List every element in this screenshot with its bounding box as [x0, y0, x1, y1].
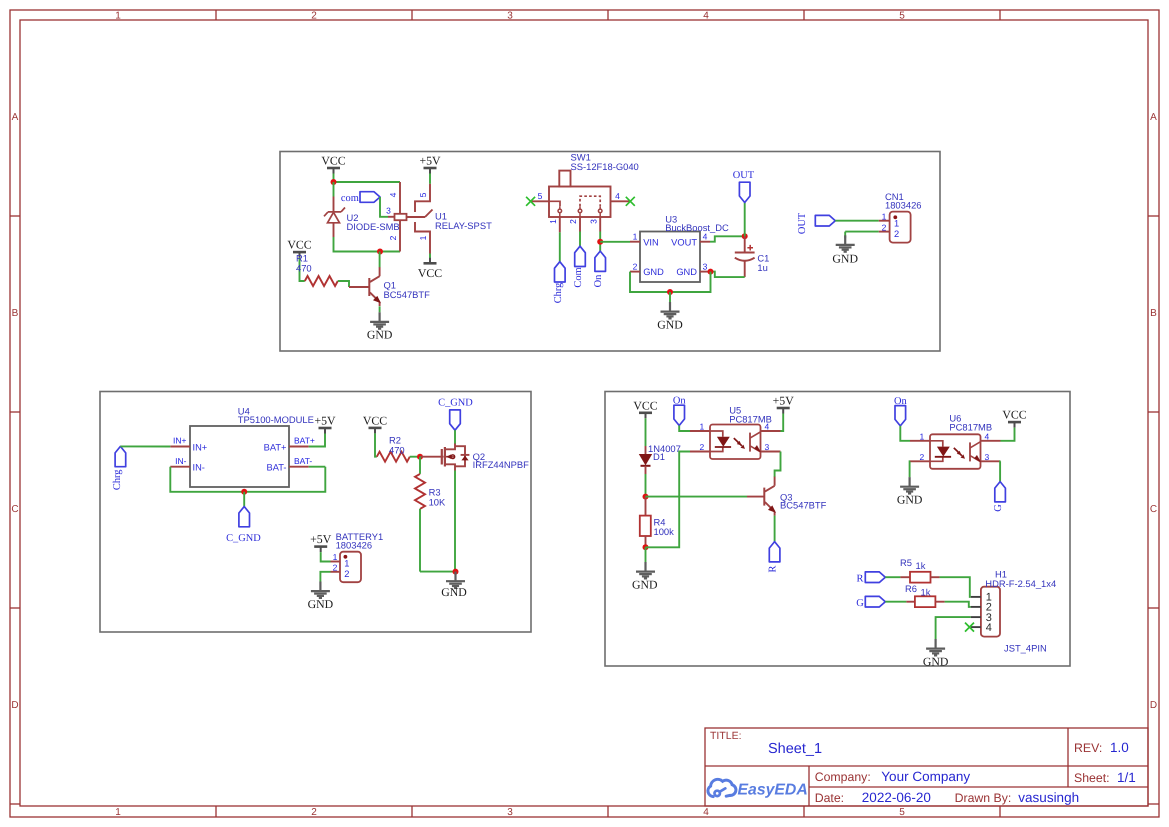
ground (H1 pin 3): [923, 639, 949, 668]
svg-text:Sheet:: Sheet:: [1074, 771, 1110, 785]
svg-text:4: 4: [765, 422, 770, 432]
wire: [410, 456, 420, 458]
svg-text:TITLE:: TITLE:: [710, 730, 742, 742]
net flag On (SW1): [593, 251, 605, 287]
relay U1 coil pin 3: [386, 206, 394, 217]
resistor R5 1k: [900, 557, 940, 582]
svg-text:Your Company: Your Company: [881, 769, 970, 784]
svg-text:R: R: [767, 565, 778, 572]
junction: [708, 269, 714, 275]
wire: [835, 220, 879, 222]
frame column numbers top: [115, 11, 905, 819]
wire: [559, 232, 561, 261]
wire: [420, 571, 456, 573]
mosfet Q2 IRFZ44NPBF: [442, 443, 529, 471]
connector CN1 1803426: [885, 191, 922, 243]
svg-text:1.0: 1.0: [1110, 740, 1129, 755]
svg-text:2: 2: [333, 563, 338, 573]
net flag On (U6): [894, 396, 908, 426]
title block: [705, 728, 1148, 806]
diode U2 (zener DIODE-SMB): [324, 197, 400, 238]
ic U3 pin 2: [630, 262, 640, 272]
svg-text:On: On: [593, 274, 604, 288]
ground (U3): [657, 302, 683, 331]
svg-text:G: G: [856, 598, 864, 609]
svg-text:VCC: VCC: [321, 154, 345, 168]
svg-text:Drawn By:: Drawn By:: [955, 791, 1012, 805]
power flag VCC (U6 pin 4): [1002, 408, 1026, 428]
transistor Q3 BC547BTF: [747, 477, 827, 516]
svg-text:4: 4: [388, 192, 398, 197]
svg-text:1: 1: [882, 211, 887, 221]
resistor R2 470: [377, 434, 410, 461]
svg-text:A: A: [12, 112, 19, 123]
svg-text:R: R: [857, 573, 864, 584]
EasyEDA logo: [708, 779, 808, 798]
net flag C_GND (below U4): [226, 507, 261, 545]
resistor R1 470: [296, 253, 338, 287]
svg-text:Chrg: Chrg: [553, 283, 564, 304]
wire: [429, 174, 431, 184]
svg-text:JST_4PIN: JST_4PIN: [1004, 643, 1047, 654]
svg-text:3: 3: [588, 219, 598, 224]
transistor Q1 BC547BTF: [349, 267, 430, 306]
svg-text:D: D: [1150, 700, 1157, 711]
svg-text:BAT+: BAT+: [294, 436, 315, 446]
power flag VCC (relay pin 1): [418, 258, 442, 280]
junction: [643, 494, 649, 500]
wire: [781, 414, 784, 432]
svg-text:5: 5: [538, 191, 543, 201]
wire: [645, 547, 647, 562]
wire: [379, 306, 381, 312]
power flag +5V (BAT+): [314, 414, 336, 434]
svg-text:3: 3: [765, 442, 770, 452]
net flag G (U6 pin 3): [993, 482, 1005, 512]
module U4 pin BAT+: [289, 436, 315, 447]
no-connect (H1 pin 4): [965, 623, 974, 632]
svg-text:2: 2: [388, 235, 398, 240]
svg-text:R6: R6: [905, 583, 917, 594]
frame row letters: [11, 112, 1157, 711]
svg-text:1: 1: [700, 422, 705, 432]
net flag On (U5): [673, 396, 687, 426]
net flag OUT (above C1): [733, 170, 755, 203]
wire: [599, 232, 601, 252]
svg-text:On: On: [894, 396, 908, 407]
wire: [300, 258, 305, 281]
relay U1 coil pin 2: [388, 220, 400, 251]
ground (battery pin 2): [308, 582, 334, 611]
net flag OUT (to CN1): [797, 212, 836, 234]
svg-text:5: 5: [899, 11, 905, 22]
svg-text:Company:: Company:: [815, 770, 871, 784]
optocoupler U5 pin 2: [690, 442, 710, 452]
svg-text:2: 2: [920, 452, 925, 462]
svg-text:VCC: VCC: [287, 238, 311, 252]
mosfet Q2 IRFZ44NPBF gate pin: [420, 456, 444, 458]
net flag R (Q3 emitter): [767, 542, 779, 573]
junction: [643, 544, 649, 550]
svg-text:+5V: +5V: [310, 532, 332, 546]
svg-text:+5V: +5V: [314, 414, 336, 428]
svg-text:1/1: 1/1: [1117, 770, 1136, 785]
wire: [630, 272, 711, 292]
wire: [321, 552, 331, 561]
wire: [909, 461, 911, 477]
wire: [646, 496, 748, 498]
ground (U6 pin 2): [897, 477, 923, 506]
power flag VCC (D1): [633, 398, 657, 418]
svg-text:2: 2: [700, 442, 705, 452]
wire: [711, 272, 745, 278]
ic U3 pin 1: [630, 232, 640, 242]
svg-text:Date:: Date:: [815, 791, 844, 805]
resistor R6 1k: [905, 583, 945, 607]
svg-text:1803426: 1803426: [336, 540, 373, 551]
wire: [338, 281, 349, 287]
junction: [667, 289, 673, 295]
ic U3 pin 3: [700, 262, 711, 272]
wire: [454, 471, 456, 572]
svg-text:GND: GND: [632, 577, 658, 591]
wire: [170, 467, 325, 492]
module U4 pin BAT-: [289, 456, 312, 467]
optocoupler U6 pin 4: [981, 431, 1001, 441]
svg-text:470: 470: [296, 263, 312, 274]
svg-text:Sheet_1: Sheet_1: [768, 741, 822, 757]
svg-text:2: 2: [633, 262, 638, 272]
svg-text:2022-06-20: 2022-06-20: [862, 790, 931, 805]
svg-text:A: A: [1150, 112, 1157, 123]
wire: [320, 572, 330, 582]
wire: [885, 601, 906, 603]
optocoupler U5 PC817MB: [710, 405, 772, 459]
svg-text:GND: GND: [441, 585, 467, 599]
power flag +5V (U5 pin 4): [773, 394, 795, 414]
svg-text:3: 3: [703, 262, 708, 272]
wire: [375, 433, 377, 456]
relay U1 coil: [395, 214, 407, 220]
svg-text:1: 1: [344, 558, 349, 568]
module U4 TP5100-MODULE: [190, 405, 314, 487]
svg-text:1: 1: [633, 232, 638, 242]
svg-text:BuckBoost_DC: BuckBoost_DC: [665, 222, 729, 233]
wire: [380, 197, 388, 217]
svg-text:VCC: VCC: [418, 266, 442, 280]
battery BATTERY1 pin 2: [331, 563, 341, 573]
switch SW1 pin 5: [531, 191, 549, 202]
resistor R3 10K: [415, 457, 446, 572]
svg-text:1u: 1u: [757, 262, 767, 273]
svg-text:GND: GND: [657, 317, 683, 331]
power flag VCC (top of relay coil): [321, 154, 345, 174]
module U4 pin IN+: [170, 436, 190, 447]
net flag com: [341, 192, 380, 204]
svg-text:SS-12F18-G040: SS-12F18-G040: [571, 161, 639, 172]
svg-text:Chrg: Chrg: [112, 470, 123, 491]
ground (Q1 emitter): [367, 312, 393, 341]
svg-text:470: 470: [389, 444, 405, 455]
section box: charger section: [100, 392, 531, 633]
wire: [940, 577, 971, 597]
wire: [936, 617, 971, 639]
svg-text:2: 2: [568, 219, 578, 224]
svg-text:BC547BTF: BC547BTF: [384, 289, 431, 300]
battery BATTERY1 pin 1: [331, 552, 341, 562]
ground (CN1 pin 2): [832, 235, 858, 265]
svg-text:1: 1: [920, 431, 925, 441]
optocoupler U5 pin 1: [690, 422, 710, 432]
svg-text:IN+: IN+: [193, 442, 208, 452]
junction: [417, 454, 423, 460]
optocoupler U6 pin 2: [910, 452, 930, 462]
switch SW1 pin 1: [548, 217, 560, 232]
svg-text:GND: GND: [832, 252, 858, 266]
optocoupler U6 PC817MB: [930, 413, 992, 469]
svg-text:1: 1: [548, 219, 558, 224]
svg-text:C_GND: C_GND: [226, 533, 261, 544]
svg-text:GND: GND: [367, 328, 393, 342]
switch SW1 SS-12F18-G040: [549, 152, 639, 218]
svg-text:2: 2: [894, 229, 899, 239]
net flag G (to R6): [856, 596, 885, 608]
svg-text:2: 2: [311, 807, 317, 818]
svg-text:GND: GND: [923, 654, 949, 668]
wire: [885, 576, 900, 578]
svg-text:2: 2: [344, 569, 349, 579]
svg-text:D: D: [11, 700, 18, 711]
svg-text:4: 4: [703, 807, 709, 818]
svg-text:C: C: [1150, 504, 1157, 515]
svg-text:C: C: [11, 504, 18, 515]
header H1 HDR-F-2.54_1x4: [981, 569, 1056, 654]
capacitor C1 1u: [735, 236, 770, 277]
connector CN1 pin 2: [879, 222, 890, 232]
wire: [379, 252, 381, 268]
section box: led driver section: [605, 392, 1070, 667]
net flag Com (SW1): [573, 246, 585, 287]
net flag C_GND (Q2 drain): [438, 397, 473, 430]
module U4 pin IN-: [170, 456, 190, 467]
svg-text:Com: Com: [573, 267, 584, 287]
ground (Q2 source): [441, 572, 467, 599]
wire: [645, 418, 647, 446]
svg-text:TP5100-MODULE: TP5100-MODULE: [238, 414, 314, 425]
power flag VCC (R2): [363, 413, 387, 433]
wire: [243, 492, 245, 507]
svg-text:GND: GND: [676, 267, 697, 277]
svg-text:REV:: REV:: [1074, 741, 1102, 755]
wire: [945, 602, 971, 607]
switch SW1 pin 2: [568, 217, 580, 232]
no-connect (SW1 pin 4): [626, 197, 635, 206]
wire: [999, 461, 1001, 481]
svg-text:IN-: IN-: [175, 456, 187, 466]
wire: [775, 452, 781, 478]
svg-text:4: 4: [703, 232, 708, 242]
diode D1 1N4007: [639, 443, 681, 474]
svg-text:VOUT: VOUT: [671, 237, 697, 247]
wire: [679, 426, 690, 432]
ic U3 pin 4: [700, 232, 710, 242]
wire: [645, 474, 647, 497]
svg-text:1: 1: [894, 218, 899, 228]
svg-text:C_GND: C_GND: [438, 397, 473, 408]
svg-text:EasyEDA: EasyEDA: [738, 782, 808, 799]
section box: relay/power section: [280, 152, 940, 352]
wire: [334, 237, 401, 252]
svg-text:GND: GND: [643, 267, 664, 277]
svg-text:3: 3: [507, 11, 513, 22]
wire: [309, 466, 326, 468]
wire: [454, 430, 456, 443]
svg-text:2: 2: [882, 222, 887, 232]
svg-text:3: 3: [507, 807, 513, 818]
svg-text:On: On: [673, 396, 687, 407]
wire: [333, 182, 335, 197]
power flag +5V (battery): [310, 532, 332, 552]
power flag +5V (relay pin 5): [419, 154, 441, 174]
junction: [241, 489, 247, 495]
svg-text:BAT-: BAT-: [294, 456, 312, 466]
svg-text:B: B: [1150, 308, 1157, 319]
header H1 pin stubs: [971, 597, 981, 627]
wire: [744, 203, 746, 237]
svg-text:1k: 1k: [916, 560, 926, 571]
wire: [120, 445, 170, 447]
junction: [742, 233, 748, 239]
relay U1 coil pin 4: [388, 182, 400, 214]
svg-text:100k: 100k: [654, 526, 675, 537]
svg-text:BC547BTF: BC547BTF: [780, 499, 827, 510]
svg-text:BAT-: BAT-: [267, 463, 287, 473]
svg-text:GND: GND: [308, 597, 334, 611]
ic U3 BuckBoost_DC: [640, 214, 729, 282]
optocoupler U5 pin 3: [761, 442, 781, 452]
wire: [669, 292, 671, 302]
net flag R (to R5): [857, 572, 886, 584]
ground (R4): [632, 562, 658, 591]
svg-text:1k: 1k: [921, 587, 931, 598]
svg-text:4: 4: [985, 431, 990, 441]
svg-text:RELAY-SPST: RELAY-SPST: [435, 220, 492, 231]
no-connect (SW1 pin 5): [526, 197, 535, 206]
svg-text:DIODE-SMB: DIODE-SMB: [347, 221, 400, 232]
wire: [333, 174, 335, 183]
junction: [377, 249, 383, 255]
svg-text:com: com: [341, 193, 359, 204]
svg-text:R5: R5: [900, 557, 912, 568]
power flag VCC (R1): [287, 238, 311, 258]
svg-text:D1: D1: [653, 451, 665, 462]
wire: [309, 434, 325, 447]
svg-text:3: 3: [985, 452, 990, 462]
optocoupler U5 pin 4: [761, 422, 781, 432]
wire: [429, 254, 431, 259]
switch SW1 pin 4: [611, 191, 631, 202]
wire: [710, 236, 745, 241]
svg-text:1: 1: [115, 807, 121, 818]
svg-text:vasusingh: vasusingh: [1018, 790, 1079, 805]
wire: [579, 232, 581, 247]
net flag Chrg (SW1): [553, 262, 565, 304]
svg-text:1: 1: [115, 11, 121, 22]
svg-text:G: G: [993, 504, 1004, 512]
svg-text:+5V: +5V: [419, 154, 441, 168]
svg-text:OUT: OUT: [797, 212, 808, 234]
svg-text:4: 4: [986, 622, 992, 634]
battery BATTERY1 1803426: [336, 531, 384, 582]
svg-text:HDR-F-2.54_1x4: HDR-F-2.54_1x4: [985, 578, 1056, 589]
svg-text:VCC: VCC: [363, 413, 387, 427]
title block texts: [710, 730, 1136, 805]
svg-text:1803426: 1803426: [885, 200, 922, 211]
wire: [774, 516, 776, 542]
junction: [331, 179, 337, 185]
svg-text:+5V: +5V: [773, 394, 795, 408]
svg-text:4: 4: [615, 191, 620, 201]
net flag Chrg (U4 input): [112, 446, 126, 490]
switch SW1 pin 3: [588, 217, 600, 232]
svg-text:B: B: [12, 308, 19, 319]
resistor R4 100k: [640, 497, 674, 548]
svg-text:IN+: IN+: [173, 436, 187, 446]
junction: [453, 569, 459, 575]
optocoupler U6 pin 1: [910, 431, 930, 441]
svg-text:IRFZ44NPBF: IRFZ44NPBF: [473, 459, 530, 470]
svg-text:IN-: IN-: [193, 463, 205, 473]
wire: [900, 426, 910, 441]
wire: [334, 181, 401, 183]
wire: [600, 241, 630, 243]
junction: [597, 239, 603, 245]
svg-text:VIN: VIN: [643, 237, 659, 247]
connector CN1 pin 1: [879, 211, 890, 221]
wire: [1001, 428, 1015, 441]
svg-text:VCC: VCC: [1002, 408, 1026, 422]
relay U1 switch: [407, 184, 493, 254]
svg-text:BAT+: BAT+: [264, 442, 287, 452]
svg-text:1: 1: [418, 235, 428, 240]
svg-text:5: 5: [418, 192, 428, 197]
svg-text:5: 5: [899, 807, 905, 818]
svg-text:VCC: VCC: [633, 398, 657, 412]
wire: [845, 232, 879, 239]
svg-text:4: 4: [703, 11, 709, 22]
svg-text:2: 2: [311, 11, 317, 22]
wire: [646, 452, 691, 548]
svg-text:3: 3: [386, 206, 391, 216]
optocoupler U6 pin 3: [981, 452, 1001, 462]
svg-text:GND: GND: [897, 492, 923, 506]
svg-text:10K: 10K: [429, 497, 446, 508]
svg-text:1: 1: [333, 552, 338, 562]
svg-text:OUT: OUT: [733, 170, 755, 181]
